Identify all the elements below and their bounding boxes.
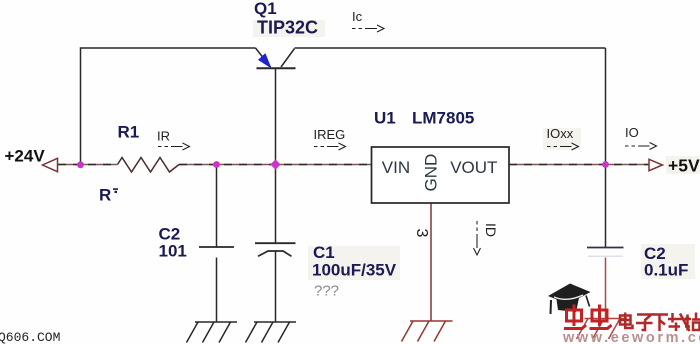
svg-text:R1: R1	[118, 123, 140, 142]
svg-text:VIN: VIN	[382, 158, 410, 177]
svg-text:???: ???	[314, 283, 339, 300]
svg-text:C1: C1	[313, 243, 335, 262]
svg-text:Ic: Ic	[352, 9, 363, 24]
svg-text:LM7805: LM7805	[412, 109, 474, 128]
svg-text:101: 101	[159, 242, 187, 261]
svg-text:IO: IO	[625, 125, 639, 140]
svg-text:IR: IR	[157, 129, 170, 144]
svg-text:100uF/35V: 100uF/35V	[312, 261, 397, 280]
svg-text:TIP32C: TIP32C	[257, 18, 318, 38]
svg-text:IREG: IREG	[314, 127, 346, 142]
svg-text:0.1uF: 0.1uF	[644, 261, 688, 280]
svg-text:Q1: Q1	[254, 0, 277, 18]
svg-text:VOUT: VOUT	[450, 158, 497, 177]
svg-text:www.eeworm.com: www.eeworm.com	[562, 330, 700, 344]
svg-text:3: 3	[413, 229, 430, 238]
svg-text:+5V: +5V	[668, 156, 700, 176]
svg-text:+24V: +24V	[5, 147, 46, 166]
svg-text:U1: U1	[374, 109, 396, 128]
svg-text:ID: ID	[483, 223, 499, 237]
svg-text:Q606.COM: Q606.COM	[0, 330, 60, 344]
svg-text:R: R	[99, 186, 111, 205]
svg-text:GND: GND	[422, 154, 441, 192]
svg-text:IOxx: IOxx	[547, 126, 574, 141]
